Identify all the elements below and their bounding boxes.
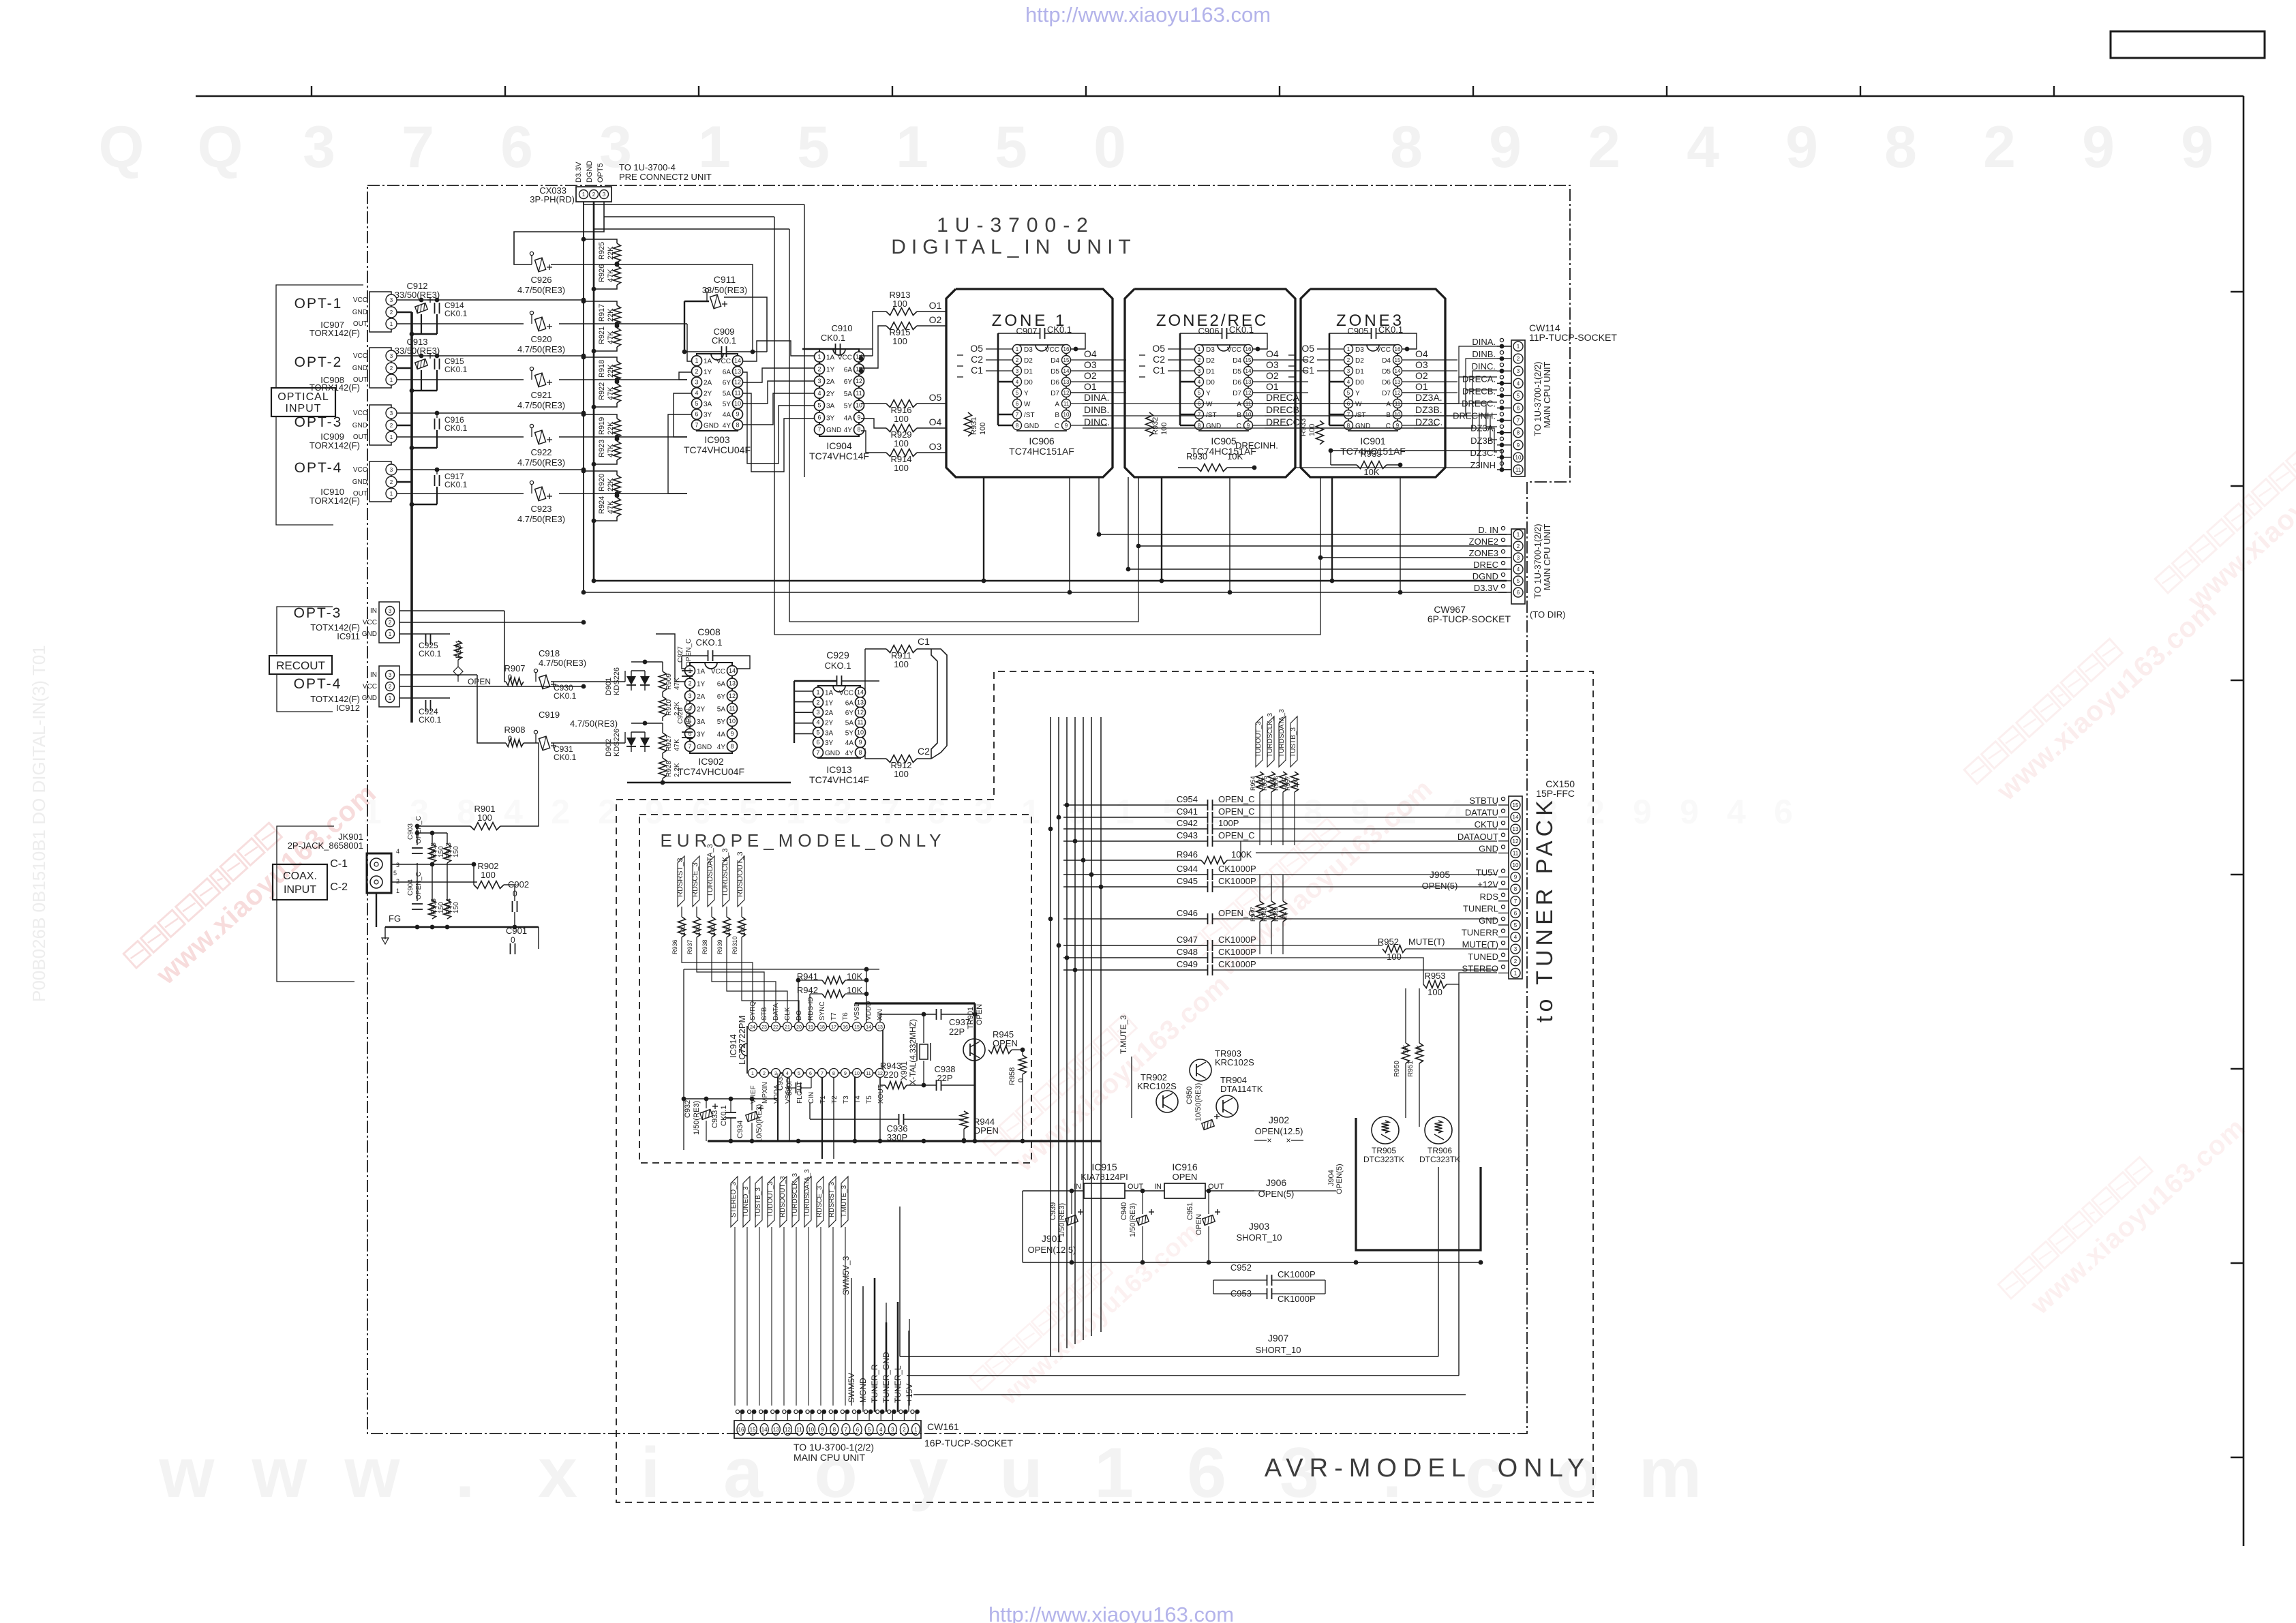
wire D3.3V [584, 592, 1507, 593]
svg-text:2: 2 [396, 878, 399, 885]
svg-text:4: 4 [1727, 793, 1746, 831]
svg-text:C927: C927 [677, 646, 684, 663]
svg-text:O3: O3 [1084, 359, 1097, 370]
svg-text:8: 8 [1514, 886, 1517, 892]
wire thick loop around TR905/906 [1356, 1118, 1481, 1250]
svg-text:CK1000P: CK1000P [1218, 876, 1256, 886]
svg-text:5: 5 [1517, 393, 1520, 399]
svg-text:7: 7 [1198, 412, 1201, 418]
svg-text:O2: O2 [929, 314, 942, 325]
svg-text:4: 4 [1347, 379, 1350, 385]
svg-text:D5: D5 [1051, 368, 1059, 376]
svg-text:C921: C921 [530, 390, 552, 400]
svg-text:16P-TUCP-SOCKET: 16P-TUCP-SOCKET [924, 1438, 1013, 1448]
unit boundary dash-dot box 1U-3700-2 [367, 185, 1570, 1434]
svg-text:15: 15 [1395, 357, 1401, 363]
svg-text:5: 5 [1198, 390, 1201, 396]
svg-text:CW161: CW161 [927, 1421, 959, 1432]
svg-text:D3.3V: D3.3V [1474, 583, 1498, 593]
svg-text:TURDSCLK_3: TURDSCLK_3 [1267, 713, 1274, 757]
resistor R918 [614, 361, 621, 380]
svg-text:3: 3 [390, 410, 393, 416]
svg-text:3: 3 [1198, 368, 1201, 374]
svg-text:D5: D5 [1233, 368, 1241, 376]
svg-text:10: 10 [808, 1427, 814, 1433]
svg-text:http://www.xiaoyu163.com: http://www.xiaoyu163.com [1025, 3, 1271, 27]
svg-text:DINB.: DINB. [1084, 404, 1109, 415]
svg-text:a: a [723, 1434, 764, 1513]
svg-text:Q: Q [99, 115, 145, 180]
wire left mesh feed [604, 216, 774, 217]
svg-text:GND: GND [704, 422, 719, 429]
svg-text:GND: GND [1206, 423, 1221, 430]
resistor R933 100 [1316, 421, 1324, 444]
svg-text:14: 14 [1395, 368, 1401, 374]
svg-text:OPEN_C: OPEN_C [415, 816, 423, 844]
svg-text:6A: 6A [844, 366, 853, 374]
bus frame [1125, 289, 1295, 477]
svg-text:A: A [1386, 401, 1391, 408]
svg-text:6: 6 [1016, 401, 1019, 407]
svg-text:7: 7 [1016, 412, 1019, 418]
svg-text:0: 0 [1093, 115, 1126, 180]
resistor R914 100 [886, 449, 917, 457]
svg-text:GND: GND [1479, 843, 1498, 853]
svg-text:22K: 22K [607, 308, 615, 322]
svg-text:TC74VHCU04F: TC74VHCU04F [684, 444, 751, 455]
wire DGND thick [594, 580, 1507, 582]
capacitor C930 CK0.1 [534, 669, 537, 672]
svg-text:7: 7 [402, 115, 434, 180]
resistor R920 [614, 475, 621, 494]
svg-text:100: 100 [894, 769, 909, 779]
svg-text:R946: R946 [1177, 849, 1198, 860]
svg-text:1: 1 [396, 888, 399, 894]
svg-text:5: 5 [739, 793, 758, 831]
svg-text:6: 6 [500, 115, 533, 180]
svg-text:2: 2 [1517, 543, 1520, 549]
tuner signal flags TUDOUT_3 etc [1256, 716, 1263, 767]
svg-text:C949: C949 [1177, 959, 1198, 969]
svg-text:C940: C940 [1120, 1202, 1128, 1220]
svg-text:R950: R950 [1393, 1061, 1401, 1077]
svg-text:100: 100 [710, 925, 716, 935]
svg-text:R921: R921 [598, 327, 606, 344]
svg-text:DTC323TK: DTC323TK [1419, 1155, 1460, 1164]
svg-text:DGND: DGND [586, 161, 594, 183]
svg-text:4: 4 [816, 719, 819, 726]
svg-text:16: 16 [1063, 346, 1070, 352]
svg-text:STBTU: STBTU [1469, 795, 1498, 806]
svg-text:100: 100 [1160, 423, 1168, 435]
svg-text:D3: D3 [1024, 346, 1033, 354]
resistor R909 47K [659, 671, 667, 692]
svg-text:DO: DO [796, 1010, 803, 1020]
svg-text:2Y: 2Y [826, 391, 835, 398]
svg-text:IC905: IC905 [1211, 436, 1237, 446]
svg-text:R949: R949 [1273, 907, 1280, 922]
svg-text:3: 3 [1016, 368, 1019, 374]
svg-text:TC74HC151AF: TC74HC151AF [1009, 446, 1074, 457]
svg-text:O5: O5 [1301, 343, 1314, 354]
svg-text:100: 100 [680, 925, 686, 935]
svg-text:C1: C1 [1153, 365, 1165, 376]
svg-text:9: 9 [1489, 115, 1522, 180]
transistor TR904 DTA114TK [1216, 1095, 1238, 1117]
svg-text:D3: D3 [1206, 346, 1215, 354]
svg-text:CK0.1: CK0.1 [419, 649, 442, 658]
svg-text:1A: 1A [697, 668, 706, 676]
svg-text:1: 1 [389, 631, 392, 637]
svg-text:R917: R917 [598, 304, 606, 322]
svg-text:2: 2 [598, 793, 617, 831]
svg-text:O1: O1 [1084, 381, 1097, 392]
svg-text:1: 1 [390, 377, 393, 383]
wire IC903 outputs to IC904 [742, 341, 817, 361]
svg-text:GND: GND [352, 422, 367, 429]
svg-text:5A: 5A [845, 720, 854, 727]
svg-text:MUTE(T): MUTE(T) [1408, 937, 1445, 947]
svg-text:2: 2 [390, 365, 393, 371]
svg-text:R948: R948 [1261, 907, 1268, 922]
svg-text:47K: 47K [607, 444, 615, 457]
svg-text:http://www.xiaoyu163.com: http://www.xiaoyu163.com [988, 1603, 1234, 1623]
svg-text:5Y: 5Y [723, 401, 731, 408]
connector CW114 11P-TUCP-SOCKET [1511, 340, 1525, 476]
svg-text:7: 7 [1517, 418, 1520, 424]
svg-text:C: C [1055, 423, 1059, 430]
svg-text:O4: O4 [1266, 348, 1279, 359]
svg-text:CK1000P: CK1000P [1218, 959, 1256, 969]
resistor R937 100 [693, 917, 701, 937]
svg-text:D2: D2 [1355, 357, 1364, 365]
svg-text:14: 14 [729, 667, 736, 674]
resistor R932 100 [1146, 412, 1153, 436]
svg-text:6Y: 6Y [717, 693, 726, 701]
svg-text:C: C [1237, 423, 1241, 430]
svg-text:OPEN_C: OPEN_C [1218, 830, 1254, 840]
capacitor C920 4.7/50(RE3) [530, 311, 533, 314]
svg-text:CK0.1: CK0.1 [712, 335, 736, 346]
svg-text:R931: R931 [970, 417, 978, 435]
svg-text:22P: 22P [949, 1027, 965, 1037]
svg-text:SHORT_10: SHORT_10 [1237, 1232, 1282, 1243]
svg-text:100: 100 [894, 438, 909, 449]
wire [196, 95, 2244, 97]
svg-text:16: 16 [1395, 346, 1401, 352]
svg-text:1Y: 1Y [697, 680, 706, 688]
svg-text:TUDOUT_3: TUDOUT_3 [767, 1181, 774, 1217]
svg-text:3: 3 [390, 297, 393, 303]
capacitor C931 CK0.1 [534, 730, 537, 733]
svg-text:33/50(RE3): 33/50(RE3) [395, 346, 440, 356]
svg-text:GND: GND [362, 695, 377, 702]
svg-text:RDSCE_3: RDSCE_3 [816, 1185, 824, 1217]
capacitor C927 OPEN_C [682, 670, 693, 671]
svg-text:4: 4 [1445, 793, 1464, 831]
AVR-MODEL ONLY dashed box [616, 671, 1593, 1502]
resistor R949 2K [1256, 901, 1264, 922]
svg-text:INPUT: INPUT [284, 884, 316, 896]
svg-text:100: 100 [740, 925, 746, 935]
bracket around OPT-3/4 out labels [277, 607, 333, 654]
svg-text:R925: R925 [598, 242, 606, 260]
svg-text:DREC: DREC [1473, 560, 1498, 570]
svg-text:15: 15 [750, 1427, 756, 1433]
svg-text:IC916: IC916 [1172, 1162, 1198, 1172]
capacitor C937 22P [936, 1009, 937, 1020]
svg-text:10: 10 [729, 718, 736, 725]
svg-text:D4: D4 [1233, 357, 1241, 365]
svg-text:2: 2 [389, 620, 392, 626]
svg-text:14: 14 [1063, 368, 1070, 374]
resistor R919 [614, 419, 621, 438]
svg-text:0: 0 [511, 935, 515, 945]
svg-text:KRC102S: KRC102S [1215, 1057, 1254, 1067]
transistor TR903 KRC102S [1190, 1059, 1211, 1081]
svg-text:KIA78124PI: KIA78124PI [1081, 1172, 1128, 1182]
svg-text:5: 5 [797, 115, 830, 180]
svg-text:GND: GND [825, 750, 840, 757]
svg-text:2A: 2A [825, 710, 834, 717]
svg-text:5A: 5A [717, 706, 726, 713]
svg-text:8: 8 [833, 1427, 836, 1433]
svg-text:C906: C906 [1198, 326, 1219, 336]
svg-text:TURDSCLK_3: TURDSCLK_3 [791, 1173, 799, 1217]
svg-text:11: 11 [734, 389, 740, 396]
svg-text:6: 6 [1774, 793, 1793, 831]
svg-text:C923: C923 [530, 504, 552, 514]
svg-text:2: 2 [390, 309, 393, 316]
svg-text:A: A [1237, 401, 1241, 408]
wire C901 tie [515, 952, 539, 957]
svg-text:23: 23 [761, 1025, 767, 1030]
svg-text:100K: 100K [1231, 849, 1252, 860]
svg-text:7: 7 [817, 426, 821, 433]
svg-text:TO 1U-3700-1(2/2): TO 1U-3700-1(2/2) [1532, 524, 1543, 598]
svg-text:STB: STB [761, 1007, 768, 1020]
svg-text:100: 100 [892, 299, 907, 309]
svg-text:3: 3 [303, 115, 335, 180]
svg-text:10/50(RE3): 10/50(RE3) [1194, 1083, 1203, 1121]
svg-text:16: 16 [738, 1427, 744, 1433]
bracket around coax block [277, 826, 354, 982]
svg-text:VCC: VCC [1045, 346, 1059, 354]
svg-text:OPEN(12.5): OPEN(12.5) [1028, 1245, 1076, 1255]
svg-text:4: 4 [695, 389, 698, 396]
svg-text:DZ3A.: DZ3A. [1415, 392, 1442, 403]
svg-text:KDS226: KDS226 [613, 729, 621, 757]
resistor R954 100 [1256, 772, 1264, 792]
svg-text:2: 2 [688, 680, 691, 686]
svg-text:13: 13 [734, 368, 741, 375]
wire J-row [1023, 1262, 1481, 1263]
svg-text:VCC: VCC [1376, 346, 1391, 354]
svg-text:12: 12 [1245, 390, 1252, 396]
svg-text:220: 220 [883, 1070, 898, 1080]
optical connector OPT-2 IC908 TORX142(F) [369, 348, 391, 388]
svg-text:R927: R927 [665, 735, 673, 751]
svg-text:KDS226: KDS226 [613, 667, 621, 695]
svg-text:DZ3C.: DZ3C. [1470, 448, 1496, 458]
svg-text:6A: 6A [845, 699, 854, 707]
svg-text:1: 1 [1517, 532, 1520, 538]
svg-text:IN: IN [370, 607, 377, 615]
svg-text:C946: C946 [1177, 908, 1198, 918]
svg-text:GND: GND [826, 427, 841, 434]
multiplexer IC901 TC74HC151AF [1367, 345, 1379, 351]
svg-text:T1: T1 [819, 1095, 827, 1104]
svg-text:8: 8 [736, 421, 739, 428]
svg-text:100P: 100P [1218, 818, 1239, 828]
svg-text:CLK: CLK [784, 1007, 791, 1020]
svg-text:3A: 3A [826, 403, 835, 410]
svg-text:TUNED_3: TUNED_3 [742, 1186, 750, 1217]
svg-text:4: 4 [396, 848, 399, 855]
svg-text:.: . [455, 1434, 475, 1513]
svg-text:OPEN(5): OPEN(5) [1335, 1164, 1344, 1194]
svg-text:VCC: VCC [353, 297, 367, 304]
svg-text:INPUT: INPUT [286, 403, 322, 414]
svg-text:OPEN_C: OPEN_C [685, 639, 693, 667]
svg-text:D6: D6 [1233, 379, 1241, 386]
svg-text:GND: GND [352, 365, 367, 372]
svg-text:6P-TUCP-SOCKET: 6P-TUCP-SOCKET [1428, 613, 1511, 624]
svg-text:X-TAL(4.332MHZ): X-TAL(4.332MHZ) [908, 1019, 918, 1085]
svg-text:TC74VHC14F: TC74VHC14F [809, 451, 869, 461]
transistor TR901 OPEN [963, 1039, 985, 1061]
svg-text:O3: O3 [929, 441, 942, 452]
wire IC903 input mesh [687, 324, 692, 361]
svg-text:9: 9 [736, 411, 739, 418]
svg-text:CK1000P: CK1000P [1218, 935, 1256, 945]
svg-text:6: 6 [1187, 1434, 1226, 1513]
svg-text:O4: O4 [929, 416, 942, 427]
svg-text:C954: C954 [1177, 794, 1198, 804]
svg-text:x: x [538, 1434, 577, 1513]
svg-text:J906: J906 [1266, 1177, 1287, 1188]
svg-text:OPT-3: OPT-3 [294, 605, 342, 621]
svg-text:7: 7 [1514, 898, 1517, 905]
svg-text:PRE CONNECT2 UNIT: PRE CONNECT2 UNIT [619, 172, 712, 182]
svg-text:2: 2 [389, 684, 392, 690]
svg-text:3Y: 3Y [697, 731, 706, 738]
svg-text:33/50(RE3): 33/50(RE3) [395, 290, 440, 300]
svg-text:6: 6 [1517, 590, 1520, 596]
svg-text:100: 100 [1428, 987, 1442, 997]
svg-text:9: 9 [821, 1427, 824, 1433]
svg-text:D0: D0 [1024, 379, 1033, 386]
svg-text:5A: 5A [844, 391, 853, 398]
svg-text:2: 2 [1588, 115, 1620, 180]
svg-text:TR906: TR906 [1428, 1146, 1452, 1155]
svg-text:D2: D2 [1024, 357, 1033, 365]
svg-text:R956: R956 [1273, 776, 1280, 791]
svg-text:R924: R924 [598, 496, 606, 514]
svg-text:10K: 10K [1227, 451, 1243, 461]
transistor TR905 DTC323TK [1372, 1117, 1399, 1144]
svg-text:IC911: IC911 [337, 631, 360, 641]
svg-text:C945: C945 [1177, 876, 1198, 886]
svg-text:DZ3B.: DZ3B. [1470, 436, 1496, 446]
svg-text:Z3INH: Z3INH [1470, 460, 1496, 470]
svg-text:MAIN CPU UNIT: MAIN CPU UNIT [1542, 361, 1552, 428]
capacitor C912 33/50(RE3) + C914 CK0.1 [415, 303, 427, 314]
svg-text:5A: 5A [723, 390, 731, 397]
svg-text:VCC: VCC [716, 358, 731, 365]
svg-text:100: 100 [979, 423, 987, 435]
svg-text:5: 5 [393, 870, 397, 877]
svg-text:TU5V: TU5V [1476, 868, 1499, 878]
svg-text:21: 21 [785, 1025, 790, 1030]
svg-text:3: 3 [1347, 368, 1350, 374]
svg-text:2: 2 [695, 368, 698, 375]
svg-text:C943: C943 [1177, 830, 1198, 840]
svg-text:4A: 4A [717, 731, 726, 738]
svg-text:TURDSDATA_3: TURDSDATA_3 [804, 1169, 811, 1217]
svg-text:5Y: 5Y [717, 718, 726, 726]
svg-text:11: 11 [796, 1427, 802, 1433]
svg-text:TORX142(F): TORX142(F) [309, 440, 360, 451]
svg-text:C908: C908 [697, 626, 721, 637]
svg-text:9: 9 [1680, 793, 1699, 831]
svg-text:2: 2 [903, 1427, 906, 1433]
capacitor C926 4.7/50(RE3) [530, 252, 533, 255]
svg-text:9: 9 [1065, 423, 1068, 429]
svg-text:MAIN CPU UNIT: MAIN CPU UNIT [794, 1452, 865, 1463]
svg-text:R938: R938 [701, 939, 708, 954]
svg-text:XOUT: XOUT [877, 1084, 885, 1104]
multiplexer IC905 TC74HC151AF [1218, 345, 1230, 351]
optical connector OPT-3 IC909 TORX142(F) [369, 405, 391, 445]
svg-text:DRECB.: DRECB. [1266, 404, 1302, 415]
svg-text:i: i [641, 1434, 661, 1513]
svg-text:C918: C918 [539, 648, 560, 658]
svg-text:TURDSDATA_3: TURDSDATA_3 [706, 844, 714, 897]
label box OPTICAL INPUT [271, 388, 335, 416]
svg-text:VCC: VCC [363, 619, 377, 626]
wire [1025, 3, 1271, 27]
svg-text:11: 11 [729, 705, 735, 712]
svg-text:20: 20 [796, 1025, 802, 1030]
svg-text:1Y: 1Y [704, 369, 712, 376]
svg-text:2Y: 2Y [697, 706, 706, 713]
svg-text:14: 14 [857, 689, 864, 696]
svg-text:1: 1 [582, 192, 586, 198]
svg-text:D3: D3 [1355, 346, 1364, 354]
svg-text:D1: D1 [1024, 368, 1033, 376]
svg-text:1A: 1A [826, 354, 835, 362]
svg-text:CK0.1: CK0.1 [720, 1105, 728, 1126]
svg-text:Y: Y [1024, 390, 1029, 397]
svg-text:3: 3 [974, 793, 993, 831]
svg-text:3Y: 3Y [825, 740, 834, 747]
svg-text:1A: 1A [825, 690, 834, 697]
svg-text:12: 12 [1063, 390, 1070, 396]
svg-text:OPTICAL: OPTICAL [277, 391, 329, 403]
svg-text:TUNERR: TUNERR [1462, 928, 1498, 938]
svg-text:D902: D902 [605, 739, 613, 757]
svg-text:15: 15 [1513, 802, 1519, 808]
svg-text:VCC: VCC [711, 668, 725, 676]
wire D.IN [1099, 477, 1507, 534]
svg-text:5Y: 5Y [845, 729, 854, 737]
svg-text:47K: 47K [674, 739, 681, 751]
svg-text:to TUNER PACK: to TUNER PACK [1532, 796, 1558, 1022]
svg-text:100: 100 [1293, 778, 1299, 788]
svg-text:5: 5 [1347, 390, 1350, 396]
capacitor C936 330P [898, 1114, 900, 1125]
